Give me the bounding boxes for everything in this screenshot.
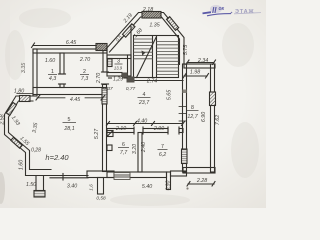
wall stair bay inner outline	[110, 17, 180, 65]
tick mid	[62, 174, 64, 181]
svg-text:5.40: 5.40	[142, 184, 152, 190]
4.45 dim line + end ticks	[37, 97, 65, 99]
paper mottle	[5, 8, 259, 206]
hatched flue in wall	[102, 88, 107, 104]
svg-text:2.90: 2.90	[153, 126, 164, 132]
svg-text:2.70: 2.70	[79, 57, 90, 63]
wall bay inner outline	[9, 101, 52, 170]
underline room6	[118, 147, 129, 149]
svg-text:7,3: 7,3	[81, 76, 88, 82]
wall bay outer outline	[5, 96, 52, 176]
svg-text:4,3: 4,3	[49, 76, 56, 82]
stair treads right flight	[157, 41, 179, 43]
svg-text:3.40: 3.40	[67, 184, 77, 190]
svg-text:1: 1	[51, 69, 54, 75]
1.29 arrows	[109, 77, 112, 79]
wall room3 bottom	[107, 73, 122, 77]
svg-text:6,2: 6,2	[159, 152, 166, 158]
blue stamp: II-oy ETAZh	[203, 5, 262, 16]
door jambs room7	[167, 127, 169, 134]
ticks on wall 7|8	[179, 107, 187, 122]
wall between rooms 1 and 2	[60, 53, 64, 74]
svg-text:5.65: 5.65	[167, 90, 173, 100]
svg-text:2.28: 2.28	[196, 178, 207, 184]
window on right diagonal	[167, 17, 179, 31]
underline room3	[115, 63, 123, 65]
underline room4	[138, 97, 151, 99]
pier leg bottom-left	[36, 176, 44, 193]
door jamb room1-2	[59, 73, 66, 75]
svg-text:5.27: 5.27	[94, 128, 100, 139]
wall segment between doors	[143, 129, 168, 133]
dim line 1.98	[184, 75, 207, 77]
svg-text:7: 7	[161, 144, 164, 150]
wall top right wing	[184, 64, 215, 68]
svg-text:0,37: 0,37	[103, 86, 113, 92]
cross pier leg	[98, 178, 104, 195]
svg-text:5: 5	[68, 117, 71, 123]
wall bottom of rooms 1-2	[33, 88, 107, 95]
balcony window room 6	[114, 173, 130, 180]
paper background	[0, 0, 266, 208]
underline room2	[80, 74, 89, 76]
stair bottom line	[131, 80, 183, 82]
svg-text:4.45: 4.45	[70, 97, 80, 103]
door leaf room3	[122, 73, 128, 79]
wall room3 top	[107, 55, 131, 59]
underline room5	[63, 122, 77, 124]
hatched flue room3 left	[108, 59, 113, 67]
svg-text:13,9: 13,9	[114, 66, 123, 71]
svg-text:ЭТАЖ: ЭТАЖ	[235, 9, 254, 15]
wall vertical x104	[103, 85, 107, 172]
window on lower diagonal	[11, 137, 22, 148]
svg-text:3: 3	[117, 59, 120, 65]
window on bay top wall	[20, 96, 31, 102]
svg-text:0,77: 0,77	[126, 86, 136, 92]
window right wall	[210, 92, 216, 106]
svg-text:0,28: 0,28	[31, 148, 41, 154]
wall right outer	[211, 64, 215, 172]
svg-text:II: II	[212, 6, 217, 15]
wall bottom continues to room8	[171, 171, 187, 176]
svg-text:3.20: 3.20	[132, 144, 138, 154]
window on top wall	[142, 12, 161, 19]
svg-text:2.18: 2.18	[142, 7, 153, 13]
stair left wall line	[130, 27, 132, 81]
chimney block on top wall	[96, 44, 107, 51]
underline room7	[158, 149, 168, 151]
svg-text:6.90: 6.90	[201, 112, 207, 122]
svg-text:1,6: 1,6	[89, 184, 94, 191]
svg-text:1.60: 1.60	[19, 160, 25, 170]
dim line 6.45	[33, 45, 96, 47]
dim line 2.28	[188, 183, 214, 185]
wall between rooms 6 and 7	[138, 133, 142, 173]
door jambs room6	[133, 127, 135, 134]
svg-text:2: 2	[83, 69, 86, 75]
svg-text:1.60: 1.60	[45, 58, 55, 64]
dim line 4.40	[107, 123, 183, 125]
wall stub below door 1-2	[60, 84, 64, 88]
wall bottom rooms 6/7	[107, 172, 167, 178]
svg-text:2.10: 2.10	[115, 126, 126, 132]
svg-text:4.40: 4.40	[137, 119, 147, 125]
svg-text:6: 6	[122, 142, 125, 148]
svg-text:2.70: 2.70	[96, 73, 102, 84]
svg-text:12,7: 12,7	[187, 114, 198, 120]
svg-text:6.45: 6.45	[66, 40, 76, 46]
wall room4 | room6	[107, 129, 134, 133]
svg-text:7.62: 7.62	[215, 115, 221, 125]
stair up arrow diagonal	[137, 38, 157, 78]
wall room3 right	[128, 55, 132, 76]
window on upper diagonal	[6, 103, 16, 116]
cross pier bar	[87, 171, 114, 178]
svg-text:0,58: 0,58	[96, 196, 106, 202]
svg-text:23,7: 23,7	[138, 100, 150, 106]
svg-text:1.98: 1.98	[190, 70, 200, 76]
wall left of room 1	[33, 49, 37, 96]
stair center stringer	[152, 36, 154, 78]
stair treads left flight	[134, 39, 179, 75]
svg-text:2.74: 2.74	[146, 79, 157, 85]
svg-text:1.80: 1.80	[14, 89, 24, 95]
svg-text:1.50: 1.50	[26, 182, 36, 188]
svg-text:1.35: 1.35	[149, 23, 159, 29]
door jamb room2-hall	[102, 71, 109, 73]
stairwell box	[134, 36, 179, 78]
svg-text:1,29: 1,29	[113, 77, 123, 83]
scan speck	[186, 187, 188, 189]
underline room1	[48, 74, 57, 76]
svg-text:2.34: 2.34	[197, 58, 208, 64]
svg-text:28,1: 28,1	[63, 126, 74, 132]
hatched block on wall 7|8	[182, 149, 188, 164]
wall right of room 2	[103, 49, 107, 72]
thin wall room5 south	[50, 175, 88, 177]
svg-text:4: 4	[143, 92, 146, 98]
wall top of rooms 1-2	[33, 49, 107, 53]
dim line 1.80	[17, 93, 33, 95]
pier foot hatch	[34, 191, 45, 198]
svg-text:0,90: 0,90	[166, 180, 172, 190]
scan smudge bottom-left	[0, 172, 5, 204]
svg-text:5.75: 5.75	[183, 45, 189, 55]
wall bottom room 8	[183, 168, 215, 174]
svg-text:8: 8	[191, 105, 194, 111]
door leaf stair entry	[127, 77, 135, 83]
vent block 1	[107, 131, 113, 137]
svg-text:2.58: 2.58	[0, 114, 6, 125]
small block on wall 7|8 upper	[183, 90, 187, 94]
step notch	[167, 172, 171, 190]
dim line 2.34	[187, 62, 214, 64]
wall stair bay outer outline	[106, 13, 184, 65]
svg-text:2.40: 2.40	[141, 142, 147, 153]
window on left diagonal	[123, 24, 136, 37]
svg-text:ок: ок	[219, 6, 225, 12]
vent block 2	[107, 145, 112, 151]
wall segment right	[179, 129, 183, 133]
underline room8	[187, 110, 199, 112]
svg-text:h=2.40: h=2.40	[45, 153, 69, 162]
svg-text:7,7: 7,7	[120, 150, 128, 156]
